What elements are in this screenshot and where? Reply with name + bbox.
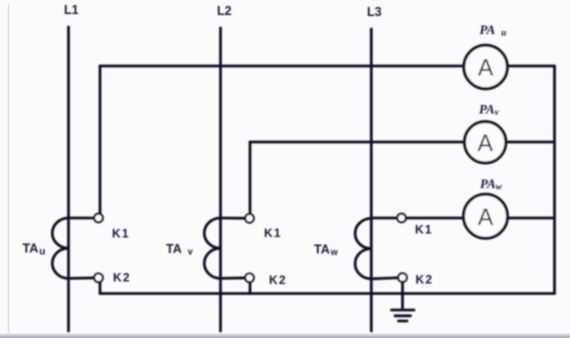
wire tap K2-TA1 bbox=[69, 276, 99, 279]
current transformer TA3 coil bbox=[355, 218, 371, 278]
wire PA1 horizontal bbox=[100, 65, 555, 68]
ammeter PA3 bbox=[464, 194, 508, 238]
wire right bus bbox=[553, 66, 556, 294]
ammeter PA1 bbox=[464, 45, 507, 88]
terminal K2 TA2 bbox=[245, 274, 254, 283]
svg-text:K1: K1 bbox=[112, 227, 130, 241]
svg-text:K1: K1 bbox=[264, 226, 282, 240]
wire PA3 horizontal bbox=[371, 217, 554, 220]
svg-text:L1: L1 bbox=[64, 3, 79, 17]
svg-text:K2: K2 bbox=[113, 271, 131, 285]
left margin line bbox=[8, 4, 10, 333]
terminal K2 TA1 bbox=[94, 274, 103, 283]
phase bus L1 bbox=[67, 27, 70, 331]
wire drop K2-TA2 bbox=[249, 280, 252, 294]
phase bus L3 bbox=[370, 29, 373, 331]
ammeter PA2 bbox=[465, 122, 506, 163]
svg-text:K2: K2 bbox=[269, 273, 287, 287]
wire riser K1-TA2 bbox=[249, 142, 252, 215]
terminal K1 TA1 bbox=[94, 214, 103, 223]
wire tap K1-TA2 bbox=[221, 217, 250, 220]
wire tap K2-TA2 bbox=[221, 276, 250, 279]
ground bbox=[392, 310, 415, 321]
terminal K2 TA3 bbox=[398, 273, 407, 282]
svg-text:L3: L3 bbox=[367, 5, 382, 19]
svg-text:K1: K1 bbox=[415, 223, 433, 237]
svg-text:A: A bbox=[478, 204, 494, 231]
current transformer TA2 coil bbox=[204, 218, 220, 278]
current transformer TA1 coil bbox=[52, 218, 68, 278]
svg-text:A: A bbox=[477, 130, 493, 157]
wire tap K1-TA1 bbox=[69, 217, 99, 220]
svg-text:A: A bbox=[478, 55, 494, 82]
wire PA2 horizontal bbox=[250, 141, 555, 144]
terminal K1 TA3 bbox=[397, 214, 406, 223]
wire riser K1-TA1 bbox=[99, 66, 102, 215]
svg-text:K2: K2 bbox=[416, 273, 434, 287]
wire drop K2-TA3 to ground bbox=[401, 280, 404, 310]
svg-text:L2: L2 bbox=[217, 4, 232, 18]
wire tap K2-TA3 bbox=[371, 278, 402, 279]
phase bus L2 bbox=[219, 28, 222, 331]
terminal K1 TA2 bbox=[245, 214, 254, 223]
wire drop K2-TA1 bbox=[99, 280, 102, 294]
wire bottom return bbox=[100, 292, 555, 295]
